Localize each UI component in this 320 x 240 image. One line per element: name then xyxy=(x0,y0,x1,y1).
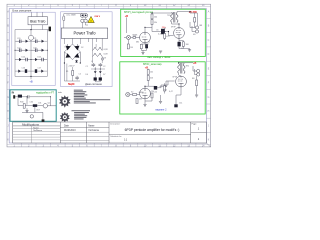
diode D21 xyxy=(42,40,45,43)
resistor R8 cathode v1 xyxy=(140,44,142,48)
tube V1 triode xyxy=(140,32,151,43)
resistor R1 xyxy=(72,71,74,76)
resistor R5 plate load xyxy=(151,20,153,25)
switch S1 contact d xyxy=(84,19,87,22)
svg-text:33k: 33k xyxy=(154,22,157,24)
diode D7 xyxy=(99,71,102,73)
svg-text:Bias Trafo: Bias Trafo xyxy=(30,20,45,24)
tube V2 pentode xyxy=(174,28,185,39)
resistor R2 grid xyxy=(127,44,129,49)
svg-text:D7: D7 xyxy=(103,74,105,76)
wire cathode stage1 xyxy=(165,28,190,50)
svg-text:J: J xyxy=(8,125,9,127)
wire cathode stage2 xyxy=(161,76,197,104)
frame column numbers top xyxy=(14,5,206,7)
transformer TR2 output secondary xyxy=(183,64,185,74)
capacitor C3 polarized xyxy=(94,77,97,80)
wire bias trafo stubs xyxy=(32,12,43,29)
label smudges bias xyxy=(17,38,41,70)
ground stage1 c xyxy=(159,51,162,53)
frame row letters right xyxy=(208,10,210,141)
diode D27 xyxy=(41,70,44,73)
svg-text:6P3P: 6P3P xyxy=(171,27,176,29)
svg-text:0,47: 0,47 xyxy=(169,91,173,93)
wire trafo secondary stubs xyxy=(64,38,102,50)
capacitor C25 xyxy=(31,58,47,62)
capacitor C2 xyxy=(99,63,103,67)
wire ladder row1 xyxy=(15,40,47,42)
frame bottom band line xyxy=(7,144,211,146)
svg-text:C22: C22 xyxy=(17,47,20,49)
diode bridge D1 xyxy=(66,46,71,51)
svg-text:C27: C27 xyxy=(38,68,41,70)
capacitor C8 cathode v1 xyxy=(145,44,148,48)
frame outer border xyxy=(7,4,211,147)
svg-text:470: 470 xyxy=(166,36,169,38)
svg-text:C10: C10 xyxy=(154,92,157,94)
svg-text:+B: +B xyxy=(145,67,148,70)
wire filter bottom xyxy=(95,81,100,82)
modifications header line xyxy=(13,125,61,127)
wire input stage2 xyxy=(130,93,140,95)
tube V4 pentode xyxy=(176,76,187,87)
svg-text:Page: Page xyxy=(192,124,198,126)
svg-text:TR2: TR2 xyxy=(186,66,190,68)
svg-text:X2: X2 xyxy=(131,92,133,94)
diode bridge D4 xyxy=(74,53,79,58)
svg-text:вых. каскад + твики: вых. каскад + твики xyxy=(148,56,171,59)
svg-text:C31: C31 xyxy=(38,103,41,105)
svg-text:D25: D25 xyxy=(38,57,41,59)
svg-text:G: G xyxy=(7,97,9,99)
svg-text:5Ц3С: 5Ц3С xyxy=(68,82,75,86)
jack J3 speaker a xyxy=(195,26,198,29)
capacitor C30 xyxy=(28,95,29,98)
ground stage2 c xyxy=(195,95,198,97)
diode D5 xyxy=(75,60,78,62)
svg-text:R15: R15 xyxy=(164,90,167,92)
capacitor C23 xyxy=(31,49,42,53)
description divider line xyxy=(109,134,191,136)
date name row lines xyxy=(60,132,109,140)
svg-text:сеть 230В: сеть 230В xyxy=(66,14,76,16)
label smudges teal xyxy=(20,102,50,112)
jack J2 xyxy=(30,115,33,118)
svg-text:+B: +B xyxy=(193,62,196,65)
note list 1 xyxy=(72,90,111,112)
svg-text:5k6: 5k6 xyxy=(150,78,153,80)
svg-text:68k: 68k xyxy=(136,42,139,44)
label smudges psu xyxy=(65,47,106,77)
svg-text:D6: D6 xyxy=(86,74,88,76)
wire bias top rail xyxy=(15,30,49,80)
connector shield pin xyxy=(42,119,45,122)
wire teal mid row xyxy=(18,98,56,119)
svg-text:Блок смещения: Блок смещения xyxy=(12,8,31,12)
ground teal xyxy=(25,111,28,113)
wire output transformer stage1 xyxy=(172,12,196,32)
switch S1 contact a xyxy=(80,13,84,17)
wire plate stage1 xyxy=(141,25,173,53)
resistor R10 dropper xyxy=(147,70,149,75)
diode D20 xyxy=(26,40,29,43)
capacitor C27 polarized xyxy=(35,69,37,73)
svg-text:IN: IN xyxy=(12,92,15,95)
svg-text:6,3V: 6,3V xyxy=(104,53,109,55)
frame column numbers bottom xyxy=(14,145,206,147)
svg-text:No/Name: No/Name xyxy=(33,130,43,132)
resistor R14 cathode stage2 xyxy=(151,93,153,98)
frame corner diagonal xyxy=(206,143,210,147)
transformer TR1 output primary xyxy=(171,12,175,23)
svg-text:C1: C1 xyxy=(86,66,88,68)
svg-text:1M: 1M xyxy=(139,99,142,101)
wire output stage2 xyxy=(179,63,197,76)
svg-text:1k: 1k xyxy=(148,42,150,44)
wire input to grid xyxy=(124,38,140,45)
capacitor C5 xyxy=(75,76,78,80)
resistor R11 dropper xyxy=(147,76,149,81)
frame row letters left xyxy=(7,10,9,141)
svg-text:todo:: todo: xyxy=(58,91,63,94)
svg-text:6,3V: 6,3V xyxy=(104,49,109,51)
label smudges stage2 xyxy=(131,66,195,105)
diode D22 xyxy=(26,49,29,52)
capacitor C21 xyxy=(33,40,40,44)
capacitor C4 polarized xyxy=(99,77,102,80)
svg-text:D1: D1 xyxy=(65,47,67,49)
svg-text:+B: +B xyxy=(29,80,33,84)
svg-text:Description:: Description: xyxy=(110,123,120,126)
meter M1 xyxy=(29,35,34,40)
svg-text:Джаз-питание: Джаз-питание xyxy=(85,82,102,86)
frame column ticks bottom xyxy=(22,143,196,147)
wire B+ rail stage1 xyxy=(126,13,197,33)
svg-text:J: J xyxy=(208,125,209,127)
frame top band line xyxy=(7,5,211,7)
wire B+ stage2 xyxy=(145,69,175,88)
svg-text:6П3П_пентодный усилок: 6П3П_пентодный усилок xyxy=(124,11,154,14)
svg-text:вариант 2: вариант 2 xyxy=(156,108,168,111)
jack J7 speaker stage2 b xyxy=(197,73,200,76)
svg-text:C30: C30 xyxy=(30,102,33,104)
resistor R9 feedback xyxy=(194,18,196,23)
resistor R16 load stage2 xyxy=(196,80,198,86)
title block column line c xyxy=(108,122,110,143)
resistor R15 screen stage2 xyxy=(164,86,166,91)
winding L2 xyxy=(93,54,103,57)
svg-text:D24: D24 xyxy=(22,57,25,59)
title block column line b xyxy=(86,122,88,143)
fuse F1 xyxy=(63,16,65,21)
resistor R13 grid leak xyxy=(136,99,138,104)
warning triangle xyxy=(88,16,95,22)
jack J1 input xyxy=(126,35,130,39)
resistor R7 cathode xyxy=(182,42,184,47)
svg-text:09.08.2013: 09.08.2013 xyxy=(64,130,76,132)
capacitor C7 cathode xyxy=(178,42,181,47)
svg-text:+B: +B xyxy=(125,15,128,18)
wire heater rails xyxy=(93,44,103,63)
page divider line xyxy=(191,132,207,134)
svg-text:1k: 1k xyxy=(146,46,148,48)
diode bridge D3 xyxy=(66,53,71,58)
svg-text:L1: L1 xyxy=(91,61,93,63)
svg-text:C2: C2 xyxy=(103,66,105,68)
amp stage 1 box xyxy=(121,9,206,56)
svg-text:TR1: TR1 xyxy=(167,15,171,17)
resistor R6 screen xyxy=(164,34,166,39)
diode D25 xyxy=(35,58,38,61)
svg-text:Date: Date xyxy=(64,125,70,128)
svg-text:Q1: Q1 xyxy=(48,103,51,105)
wire filter net xyxy=(91,67,105,78)
junction dots xyxy=(15,11,191,97)
date name header line xyxy=(60,126,109,128)
svg-text:Name: Name xyxy=(33,127,39,129)
svg-text:10k: 10k xyxy=(150,72,153,74)
wire coupling stage2 xyxy=(145,81,168,104)
capacitor C22 xyxy=(15,49,26,53)
svg-text:6N9S: 6N9S xyxy=(139,92,144,94)
wire mains input xyxy=(64,14,88,28)
svg-text:C20: C20 xyxy=(17,38,20,40)
gear icon 1 xyxy=(59,95,71,108)
capacitor C20 xyxy=(16,40,24,44)
transformer T1 Power Trafo xyxy=(61,28,107,38)
bias supply box xyxy=(12,12,55,85)
diode D6 xyxy=(94,71,97,73)
svg-text:R1: R1 xyxy=(66,71,68,73)
capacitor C31 polarized xyxy=(33,104,37,107)
frame inner border xyxy=(9,9,206,143)
diode D23 xyxy=(42,49,45,52)
jack J6 speaker stage2 a xyxy=(197,69,200,72)
winding L1 xyxy=(93,48,103,51)
capacitor C10 coupling xyxy=(154,86,157,90)
transformer TR2 output primary xyxy=(178,63,182,74)
svg-text:D2: D2 xyxy=(81,47,83,49)
svg-text:G: G xyxy=(208,97,210,99)
lamp indicator xyxy=(101,58,103,60)
svg-text:C23: C23 xyxy=(33,47,36,49)
wire B+ rails xyxy=(64,63,80,81)
capacitor C1 xyxy=(92,63,96,67)
transistor Q1 xyxy=(43,104,47,108)
svg-text:6P3P pentode amplifier for mod: 6P3P pentode amplifier for modif's :) xyxy=(125,128,180,132)
resistor R4 plate load xyxy=(151,14,153,19)
jack J5 input stage2 xyxy=(126,92,130,96)
svg-text:надфройка x-FT: надфройка x-FT xyxy=(36,91,55,94)
jack J4 speaker b xyxy=(195,30,198,33)
svg-text:6N9S: 6N9S xyxy=(133,35,138,37)
tube V3 triode xyxy=(140,88,151,99)
svg-text:230 V: 230 V xyxy=(94,16,100,18)
svg-text:180: 180 xyxy=(186,44,189,46)
capacitor C26 polarized xyxy=(25,69,27,73)
title block outline xyxy=(13,122,207,143)
wire ladder row4 xyxy=(15,70,47,72)
wire ladder row2 xyxy=(28,49,47,51)
svg-text:C6: C6 xyxy=(156,30,158,32)
diode D24 xyxy=(19,58,22,61)
connector X3 xyxy=(49,27,51,32)
ground stage2 a xyxy=(143,104,146,106)
svg-text:Vs.Kosma: Vs.Kosma xyxy=(88,130,99,132)
diode D26 xyxy=(18,70,21,73)
rectifier bridge B1 xyxy=(64,44,80,63)
resistor R30 xyxy=(23,104,25,109)
svg-text:C21: C21 xyxy=(33,38,36,40)
resistor R12 grid stop xyxy=(133,94,137,96)
svg-text:+300 V: +300 V xyxy=(68,65,75,67)
modifications row lines xyxy=(13,129,61,140)
title block column line a xyxy=(59,122,61,143)
switch S1 contact b xyxy=(84,13,88,17)
svg-text:C7: C7 xyxy=(181,48,183,50)
svg-text:1M: 1M xyxy=(130,47,133,49)
resistor R3 grid stop xyxy=(133,37,136,39)
svg-text:C5: C5 xyxy=(79,74,81,76)
ground stage2 b xyxy=(159,102,162,104)
capacitor C24 xyxy=(15,58,31,62)
svg-text:C11: C11 xyxy=(179,103,182,105)
svg-text:10k: 10k xyxy=(154,17,157,19)
modifications column divider xyxy=(31,126,33,143)
label smudges stage1 xyxy=(130,15,196,50)
title block column line d xyxy=(190,122,192,143)
svg-text:R30: R30 xyxy=(20,102,23,104)
gear icon 2 xyxy=(60,112,70,122)
amp stage 2 box xyxy=(120,62,205,114)
svg-text:!: ! xyxy=(90,19,91,23)
frame row ticks left and right xyxy=(7,18,211,132)
svg-text:0,33: 0,33 xyxy=(158,34,162,36)
transformer TR1 output secondary xyxy=(176,13,178,23)
svg-text:6P3S: 6P3S xyxy=(173,77,178,79)
ground stage1 a xyxy=(141,53,144,55)
wire teal top row xyxy=(15,97,50,106)
capacitor C11 cathode stage2 xyxy=(174,104,177,107)
svg-text:C26: C26 xyxy=(22,68,25,70)
diode bridge D2 xyxy=(74,46,79,51)
preamp mod box xyxy=(10,90,56,122)
frame column ticks top xyxy=(22,4,196,8)
note list 2 xyxy=(74,112,89,119)
power supply box xyxy=(61,12,113,87)
potentiometer RV1 xyxy=(18,95,22,98)
switch S1 contact c xyxy=(81,19,84,22)
capacitor C6 coupling xyxy=(161,29,165,34)
svg-text:Substitute for:: Substitute for: xyxy=(110,135,122,138)
connector X4 xyxy=(13,95,15,98)
svg-text:Power Trafo: Power Trafo xyxy=(73,31,96,36)
transformer T2 Bias Trafo xyxy=(28,17,47,25)
ground stage1 b xyxy=(188,50,191,52)
